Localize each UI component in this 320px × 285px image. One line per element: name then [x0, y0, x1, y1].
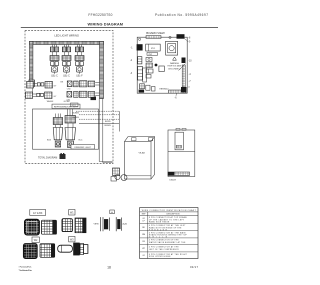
- dispenser inner duct: [175, 132, 184, 150]
- harness connector row A left: socket S1: [27, 82, 58, 89]
- header horizontal rule: [21, 27, 218, 29]
- svg-text:FREEZER LIGHT: FREEZER LIGHT: [74, 147, 91, 149]
- icon group 1 label GY BK: [30, 210, 46, 216]
- board left connector J2: [138, 57, 142, 64]
- svg-text:BM: BM: [142, 234, 145, 236]
- harness connector row B left: socket S2: [26, 92, 58, 99]
- relay K2: [146, 69, 153, 73]
- svg-text:16 AWG: 16 AWG: [72, 116, 79, 119]
- raceway bottom end connector: [91, 97, 97, 101]
- svg-text:WIRE CONNECTOR IDENTIFICATION: WIRE CONNECTOR IDENTIFICATION CHART: [142, 209, 197, 212]
- board right connector J10: [182, 58, 186, 64]
- board left connector J1: [137, 44, 143, 50]
- svg-text:Publication No. 5995A49697: Publication No. 5995A49697: [155, 13, 208, 17]
- svg-text:SIDE UPPER HINGE: SIDE UPPER HINGE: [149, 256, 171, 258]
- svg-text:BK/WH: BK/WH: [105, 125, 112, 127]
- connector CON-D shell view: [58, 245, 73, 252]
- svg-text:WH/BK: WH/BK: [47, 101, 54, 103]
- capacitor C3 tall: [143, 68, 147, 82]
- capacitor C2: [146, 63, 157, 68]
- board left bottom connector J4: [139, 90, 145, 93]
- svg-text:HAND SIDE HINGE: HAND SIDE HINGE: [149, 221, 170, 224]
- harness connector row B right: plug P2: [67, 91, 100, 101]
- total diagram note: [38, 153, 66, 159]
- connector CON-B front view: [62, 219, 72, 232]
- board left connector J3: [138, 67, 143, 81]
- svg-text:16 AWG: 16 AWG: [72, 112, 79, 115]
- control board U1 outline: [137, 37, 187, 93]
- icon group 4 label W2: [32, 237, 39, 243]
- board bottom edge connector: [169, 90, 187, 93]
- svg-text:GRILLE: GRILLE: [149, 237, 168, 239]
- svg-text:BOARD HOUSING BEHIND THE TOP: BOARD HOUSING BEHIND THE TOP: [149, 234, 188, 237]
- relay K1 label box: [147, 53, 158, 56]
- svg-text:EBR8042: EBR8042: [160, 89, 170, 91]
- freezer light box: [33, 109, 99, 149]
- svg-text:LBL-C: LBL-C: [51, 76, 58, 78]
- freezer light label: [71, 145, 95, 150]
- compressor unit 3D box: [125, 137, 155, 179]
- small part X1: [152, 87, 156, 92]
- svg-text:8LC: 8LC: [78, 140, 82, 142]
- svg-text:VE-AB: VE-AB: [139, 152, 146, 155]
- svg-text:BOARD VIEW: BOARD VIEW: [146, 31, 165, 35]
- svg-text:FREEZER: FREEZER: [149, 229, 168, 231]
- top-right tick: [185, 39, 189, 42]
- board bottom-left small component: [146, 85, 150, 90]
- wire W1 with label: [72, 111, 119, 114]
- LED lamp module LED2: [62, 45, 71, 78]
- wire source label box: [71, 103, 79, 107]
- wiring raceway right band: [100, 41, 104, 98]
- connector CON-A front view: [25, 219, 40, 235]
- IC U2: [159, 66, 164, 72]
- harness connector row A right: plug P1: [61, 81, 100, 91]
- relay K1: [146, 44, 161, 51]
- icon group 3 label A: [110, 210, 115, 214]
- wire W3 with label: [79, 119, 119, 123]
- svg-text:WARNING: WARNING: [170, 62, 180, 65]
- wiring raceway left band: [30, 41, 33, 80]
- refrigerator light label: [52, 104, 80, 109]
- connector identification table: [140, 208, 198, 259]
- svg-text:HIGH VOLTAGE: HIGH VOLTAGE: [168, 65, 183, 68]
- LED lamp module LED3: [75, 45, 84, 78]
- svg-text:8LB: 8LB: [47, 140, 51, 142]
- svg-text:BK/RD: BK/RD: [105, 121, 111, 123]
- connector CON-A rear view: [42, 220, 57, 234]
- svg-text:LED LIGHT WIRING: LED LIGHT WIRING: [54, 34, 79, 38]
- connector CON-D plug view: [73, 243, 88, 256]
- wire vertical to compressor tab: [118, 111, 120, 131]
- LED light wiring dashed enclosure: [25, 31, 113, 164]
- icon group 5 label W3: [69, 236, 75, 242]
- freezer LED module LED4: [47, 114, 63, 148]
- warning marking: [168, 57, 183, 70]
- svg-text:FFHG2250TS0: FFHG2250TS0: [88, 13, 112, 17]
- svg-text:WATER VALVE ASSEMBLY AT THE: WATER VALVE ASSEMBLY AT THE: [149, 241, 186, 244]
- capacitor C1: [146, 58, 152, 62]
- freezer LED module LED5: [65, 109, 83, 148]
- resistor block R1: [146, 75, 151, 79]
- svg-text:W7: W7: [142, 248, 145, 250]
- connector CON-C rear view: [40, 244, 55, 258]
- svg-text:TOTAL DIAGRAM: TOTAL DIAGRAM: [38, 156, 57, 159]
- footer functional parts note: [19, 266, 33, 272]
- svg-text:* Non Illustrated Parts: * Non Illustrated Parts: [19, 269, 33, 272]
- raceway drop wires to compressor: [99, 99, 112, 163]
- diagonal leader: [179, 64, 186, 71]
- svg-text:LBL-F: LBL-F: [76, 76, 83, 78]
- LED lamp module LED1: [50, 45, 59, 78]
- LED light wiring title: [54, 32, 79, 38]
- dispenser panel outline: [168, 128, 195, 176]
- svg-text:DB049: DB049: [170, 180, 177, 182]
- icon group 2 label W1: [69, 210, 75, 216]
- board top hole: [169, 36, 171, 38]
- board mounting hole top-left: [139, 38, 141, 40]
- svg-text:CN4: CN4: [67, 99, 71, 101]
- wire W2 with label: [72, 115, 119, 119]
- wire W4 with label: [79, 124, 119, 127]
- board right pin strip: [182, 65, 185, 87]
- svg-text:LBL-C: LBL-C: [63, 76, 70, 78]
- raceway left end connector: [29, 80, 34, 95]
- svg-text:WIRING DIAGRAM: WIRING DIAGRAM: [88, 22, 124, 27]
- compressor terminal cluster: [111, 168, 127, 181]
- svg-text:CN2: CN2: [148, 54, 152, 56]
- svg-text:VIEW: VIEW: [94, 224, 99, 226]
- connector CON-E side view with labels: [94, 217, 128, 231]
- svg-text:03/17: 03/17: [190, 265, 198, 269]
- svg-text:CN3: CN3: [67, 89, 71, 91]
- board bottom-left hatch component: [140, 84, 145, 89]
- connector CON-B side view: [75, 218, 86, 233]
- transformer T1: [166, 41, 178, 55]
- dispenser heater strip: [168, 172, 190, 182]
- board top edge connector: [146, 36, 161, 39]
- svg-text:18: 18: [107, 265, 111, 269]
- board top-right connector: [177, 34, 185, 39]
- wiring raceway top band: [30, 41, 104, 44]
- connector CON-C front view: [24, 244, 38, 259]
- svg-text:GY & BK: GY & BK: [33, 212, 43, 215]
- board bottom-right dark component: [181, 87, 187, 93]
- svg-text:LEFT OF THE COMPRESSOR: LEFT OF THE COMPRESSOR: [149, 249, 179, 251]
- svg-text:# Functional Parts: # Functional Parts: [19, 266, 33, 269]
